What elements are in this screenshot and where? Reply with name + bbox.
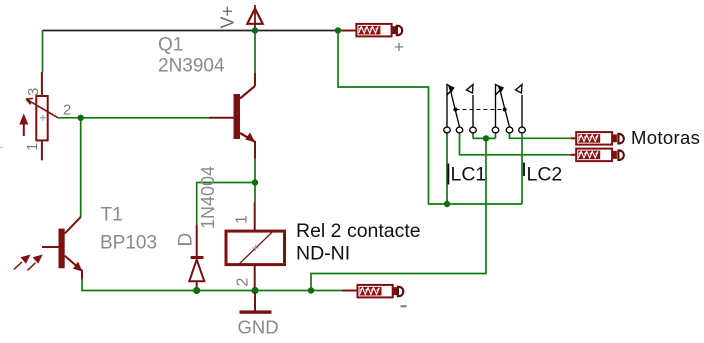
LC1 origin tick [447, 164, 449, 185]
svg-text:1: 1 [24, 143, 41, 151]
LC1 NO circle [470, 127, 477, 133]
wire LC2 common to connector A [510, 133, 572, 139]
svg-text:LC2: LC2 [527, 164, 563, 186]
LC1 arm pivot dot [453, 108, 457, 112]
connector X4 motor B [571, 149, 624, 162]
light arrow 2 [28, 255, 43, 271]
wire junction down to T1 collector [80, 118, 82, 217]
LC1 common circle [456, 127, 463, 133]
wire supply drop to Q1 collector [254, 31, 256, 74]
svg-text:Rel 2 contacte: Rel 2 contacte [296, 220, 421, 242]
svg-text:1: 1 [234, 215, 251, 224]
diode D 1N4004 [189, 225, 204, 289]
wire relay pin1 branch to diode [197, 183, 255, 226]
LC1 NC throw line [446, 95, 448, 127]
LC2 NC throw line [495, 95, 497, 127]
junction LC1-NO / LC2-NC [483, 135, 489, 141]
svg-text:2N3904: 2N3904 [158, 56, 225, 77]
potentiometer [26, 72, 58, 160]
junction top rail / right network [335, 27, 341, 33]
wire bottom rail [82, 278, 342, 291]
LC1 moving arm [450, 89, 460, 128]
svg-text:LC1: LC1 [451, 164, 487, 186]
mechanical linkage dashed line [455, 109, 504, 111]
junction V+ / Q1 collector [252, 27, 258, 33]
potentiometer adjust arrow [19, 114, 28, 137]
LC2 NO circle [519, 127, 526, 133]
LC1 NC circle [444, 127, 451, 133]
LC1 NC flag [447, 85, 454, 96]
junction bottom connector tap [308, 287, 314, 293]
LC2 moving arm [500, 89, 510, 128]
wire left drop to potentiometer [42, 31, 44, 73]
relay contact LC2 [492, 85, 525, 133]
svg-text:2: 2 [63, 102, 71, 119]
junction pot wiper / base [78, 115, 84, 121]
wire Q1 emitter down [254, 159, 256, 183]
svg-text:Q1: Q1 [158, 35, 183, 56]
LC2 common circle [506, 127, 513, 133]
junction diode anode on bottom rail [193, 287, 200, 294]
LC1 arm arrowhead [448, 85, 455, 94]
relay coil [226, 203, 285, 289]
svg-text:D: D [176, 233, 197, 247]
LC2 NC flag [496, 85, 503, 96]
junction LC1-NC on rail [444, 201, 450, 207]
LC2 NO throw line [521, 95, 523, 127]
light arrow 1 [14, 255, 31, 270]
connector X3 motor A [571, 132, 624, 145]
label - [401, 305, 407, 307]
wire relay pin1 down [254, 183, 256, 203]
phototransistor T1 [42, 217, 83, 279]
svg-text:Motoras: Motoras [631, 127, 700, 148]
svg-text:GND: GND [238, 317, 279, 338]
svg-text:BP103: BP103 [100, 233, 157, 254]
wire from top rail to contacts rail [338, 31, 522, 205]
clipped symbol at left edge [0, 147, 3, 149]
LC2 NC circle [492, 127, 499, 133]
wire LC1-NC down to rail [446, 133, 448, 205]
wire junction to Q1 base [81, 117, 209, 119]
connector X2 bottom (-) [342, 285, 403, 298]
supply symbol V+ [247, 5, 262, 30]
junction relay pin2 on bottom rail [251, 287, 258, 294]
svg-text:2: 2 [235, 278, 252, 287]
svg-text:3: 3 [25, 88, 42, 96]
transistor Q1 [209, 73, 255, 159]
wire top rail V+ [43, 30, 343, 32]
wire LC2-NO down to rail [521, 133, 523, 205]
svg-text:ND-NI: ND-NI [296, 243, 350, 265]
LC2 arm pivot dot [503, 108, 507, 112]
LC2 arm arrowhead [497, 85, 504, 94]
svg-text:1N4004: 1N4004 [198, 166, 218, 229]
connector X1 top (+) [342, 24, 402, 37]
wire LC1-NO and LC2-NC to bottom rail [311, 133, 496, 291]
junction relay pin1 / diode branch [252, 179, 258, 185]
LC2 origin tick [523, 163, 525, 177]
LC2 NO flag [516, 85, 523, 94]
LC1 NO throw line [472, 95, 474, 127]
ground symbol GND [240, 292, 272, 314]
wire pot wiper to junction [58, 117, 81, 119]
svg-text:+: + [394, 38, 404, 57]
wire LC1 common to connector B [460, 133, 572, 155]
svg-text:V+: V+ [218, 6, 238, 29]
LC1 NO flag [467, 85, 474, 94]
svg-text:T1: T1 [101, 205, 123, 226]
relay contact LC1 [444, 85, 477, 133]
